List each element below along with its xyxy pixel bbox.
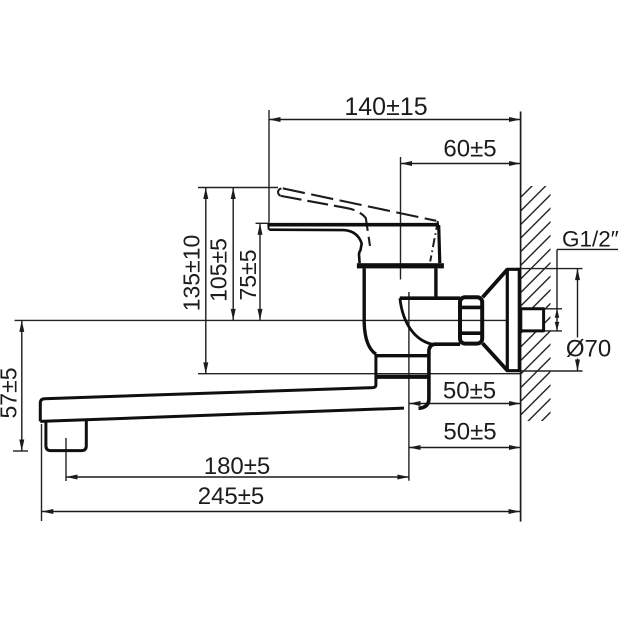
- lever handle tip: [267, 223, 270, 230]
- dashed raised lever tip arc: [278, 189, 281, 196]
- collar bar: [357, 263, 444, 268]
- svg-text:180±5: 180±5: [204, 453, 271, 480]
- body left edge with fillet: [364, 268, 376, 354]
- leader line G1/2: [556, 249, 558, 331]
- centerline of wall connection: [15, 319, 521, 321]
- joint line upper: [375, 354, 428, 357]
- extension line 50/180 vertical: [408, 292, 410, 481]
- svg-text:135±10: 135±10: [179, 235, 205, 312]
- dimension line 245: [42, 511, 520, 513]
- neck left edge and spout top: [40, 354, 376, 421]
- arrowheads: [19, 117, 580, 514]
- dimension line 60: [401, 163, 521, 165]
- dimension line 50 lower: [409, 447, 521, 449]
- svg-text:57±5: 57±5: [0, 368, 22, 419]
- dimension line 180: [66, 476, 409, 478]
- joint line lower: [375, 375, 428, 379]
- svg-text:245±5: 245±5: [198, 483, 265, 510]
- svg-text:G1/2″: G1/2″: [562, 227, 619, 252]
- hex nut: [460, 297, 482, 343]
- extension line G bottom: [544, 330, 563, 332]
- svg-text:105±5: 105±5: [206, 238, 232, 302]
- extension line spout-top level: [198, 373, 520, 375]
- extension line 245 left: [41, 424, 43, 521]
- wall line: [520, 112, 522, 522]
- escutcheon cone bottom: [483, 343, 508, 370]
- extension line G top: [544, 308, 563, 310]
- dashed raised lever upper line: [283, 188, 437, 220]
- spout underside: [40, 408, 404, 421]
- branch body intersection arc: [400, 298, 435, 345]
- svg-text:50±5: 50±5: [443, 419, 496, 446]
- svg-text:140±15: 140±15: [344, 93, 427, 121]
- dash-dot hidden lever front edge right: [430, 221, 438, 262]
- extension line handle tip (75 dim): [256, 222, 270, 224]
- dimension line 135: [205, 188, 207, 374]
- branch bottom edge and neck right edge into spout: [419, 344, 461, 408]
- extension line 60 left: [400, 157, 402, 280]
- escutcheon cone top: [483, 270, 508, 298]
- wall pipe stub G1/2: [521, 309, 544, 331]
- dimension line 75: [259, 223, 261, 320]
- cartridge cap right edge: [439, 225, 440, 263]
- svg-text:50±5: 50±5: [443, 377, 496, 404]
- flange plate: [507, 269, 519, 370]
- branch top edge: [400, 296, 460, 300]
- dimension line dia70: [577, 269, 579, 338]
- dashed raised lever lower line: [281, 196, 370, 246]
- outlet box: [46, 420, 86, 450]
- body right edge: [434, 268, 437, 298]
- extension line 140 left: [268, 110, 270, 223]
- svg-text:75±5: 75±5: [235, 250, 261, 301]
- svg-text:Ø70: Ø70: [566, 336, 611, 363]
- extension line dia70 bottom: [516, 370, 583, 372]
- dimension line 57: [21, 320, 23, 451]
- svg-text:60±5: 60±5: [443, 136, 496, 163]
- dimension line 140: [269, 119, 521, 121]
- extension line top (raised lever level): [198, 187, 278, 189]
- dimension line 50 upper: [409, 403, 521, 405]
- lever handle underside: [269, 230, 362, 264]
- lever handle top: [268, 223, 439, 227]
- extension line dia70 top: [516, 268, 583, 270]
- wall hatching: [521, 162, 556, 455]
- extension line 180 left: [65, 438, 67, 481]
- extension line 57 bottom: [13, 450, 28, 452]
- dimension line 105: [232, 188, 234, 321]
